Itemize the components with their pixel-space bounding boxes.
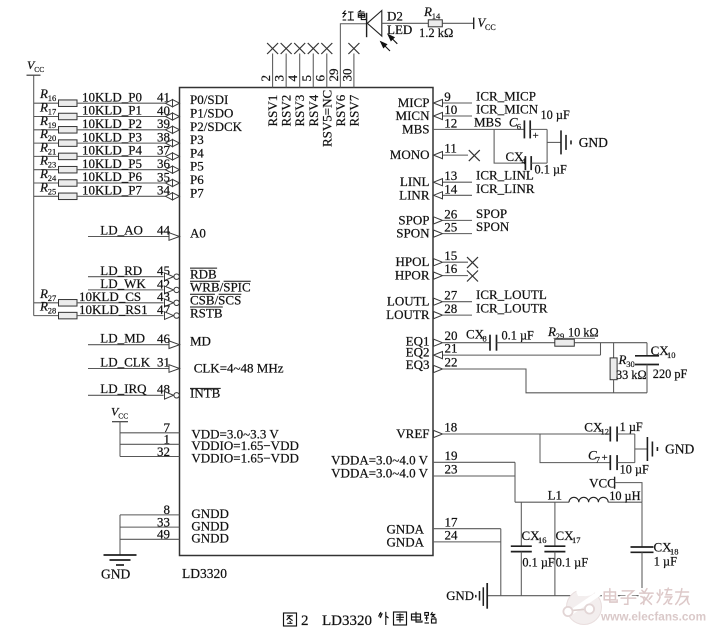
- svg-text:14: 14: [432, 11, 441, 21]
- pin CSB/SCS chip label (active low): [190, 293, 241, 308]
- node LD_AO pin 44: [88, 222, 180, 240]
- no-connect X pin 4: [294, 43, 305, 54]
- node ICR_LINR pin 14: [434, 181, 535, 199]
- svg-text:CC: CC: [34, 65, 44, 74]
- svg-text:10 µH: 10 µH: [609, 489, 640, 503]
- svg-text:LD_IRQ: LD_IRQ: [100, 381, 147, 396]
- resistor R28 on 10KLD_RS1: [34, 299, 180, 320]
- svg-text:LD3320: LD3320: [322, 613, 372, 629]
- svg-text:L1: L1: [548, 488, 562, 503]
- svg-text:19: 19: [48, 120, 57, 130]
- wire GNDD pin 49: [120, 527, 180, 542]
- svg-text:23: 23: [445, 462, 458, 477]
- LED D2: [367, 9, 413, 38]
- no-connect X pin 2: [267, 43, 278, 54]
- wire RSV pin 6: [326, 54, 328, 88]
- wire GNDA rail down: [500, 529, 502, 596]
- resistor R25 pull-up of P7: [34, 179, 180, 200]
- svg-text:12: 12: [444, 115, 457, 130]
- svg-text:SPON: SPON: [396, 226, 430, 241]
- svg-text:GNDD: GNDD: [191, 531, 229, 546]
- svg-text:16: 16: [538, 535, 547, 545]
- pin INTB chip label (active low): [190, 386, 221, 401]
- svg-text:GND: GND: [665, 442, 694, 457]
- wire MBS pin 12: [433, 114, 524, 130]
- svg-text:R: R: [39, 299, 48, 314]
- label red (红色) for LED: [343, 10, 367, 20]
- svg-text:EQ3: EQ3: [406, 357, 430, 372]
- wire GNDD rail: [119, 515, 121, 555]
- capacitor CX16 0.1uF: [511, 502, 555, 596]
- node ICR_LINL pin 13: [434, 168, 534, 186]
- svg-text:RSV7: RSV7: [346, 94, 361, 126]
- svg-text:14: 14: [444, 181, 458, 196]
- wire mic cap rail: [546, 129, 548, 163]
- svg-text:0.1 µF: 0.1 µF: [556, 556, 589, 570]
- svg-text:30: 30: [339, 69, 354, 82]
- power VCC terminal top-right: [474, 16, 496, 32]
- svg-text:R: R: [423, 4, 432, 19]
- svg-text:29: 29: [556, 331, 565, 341]
- LED light arrows: [381, 35, 398, 51]
- svg-text:LINR: LINR: [399, 187, 430, 202]
- svg-text:10KLD_P7: 10KLD_P7: [82, 183, 142, 198]
- node ICR_LOUTR pin 28: [434, 301, 548, 319]
- wire EQ1 pin 20: [434, 328, 491, 346]
- wire VCC rail left: [33, 75, 35, 315]
- svg-text:10 µF: 10 µF: [620, 463, 649, 477]
- no-connect X pin 30: [348, 43, 359, 54]
- pin RSTB chip label (active low): [190, 305, 223, 320]
- svg-text:R: R: [547, 324, 556, 339]
- svg-text:23: 23: [48, 160, 57, 170]
- svg-text:LD_AO: LD_AO: [100, 222, 143, 237]
- svg-text:A0: A0: [190, 226, 206, 241]
- svg-text:LED: LED: [387, 22, 412, 37]
- svg-text:220 pF: 220 pF: [653, 367, 688, 381]
- svg-text:17: 17: [572, 535, 581, 545]
- resistor R20 pull-up of P3: [34, 126, 180, 147]
- capacitor CX10 220pF: [635, 343, 687, 393]
- svg-text:10 µF: 10 µF: [541, 108, 570, 122]
- ground GND (digital): [101, 555, 137, 582]
- svg-text:28: 28: [444, 301, 457, 316]
- wire VREF branch down: [540, 434, 610, 463]
- wire GNDD pin 33: [120, 514, 180, 529]
- capacitor CX4 0.1uF: [506, 149, 568, 177]
- resistor R23 pull-up of P5: [34, 153, 180, 174]
- wire VDD rail: [119, 422, 121, 457]
- wire VREF pin 18: [434, 420, 611, 438]
- svg-text:8: 8: [483, 334, 487, 344]
- power VCC terminal top-left: [27, 58, 45, 75]
- svg-text:GND: GND: [101, 567, 130, 582]
- svg-text:6: 6: [517, 122, 521, 132]
- capacitor CX8 0.1uF: [466, 327, 534, 351]
- svg-text:ICR_LOUTR: ICR_LOUTR: [476, 301, 548, 316]
- svg-text:27: 27: [48, 293, 57, 303]
- svg-text:ICR_LINR: ICR_LINR: [476, 181, 535, 196]
- svg-text:SPON: SPON: [476, 219, 510, 234]
- wire VDDA pin 19: [433, 448, 515, 463]
- caption: figure 2 LD3320 peripheral circuit: [284, 613, 297, 626]
- node ICR_LOUTL pin 27: [434, 287, 547, 305]
- svg-text:12: 12: [601, 427, 610, 437]
- svg-text:25: 25: [444, 220, 457, 235]
- wire CX12 to rail: [617, 433, 635, 435]
- svg-text:25: 25: [48, 186, 57, 196]
- svg-text:17: 17: [48, 107, 57, 117]
- wire RSV pin 30: [353, 54, 355, 88]
- ground GND (vref): [647, 437, 694, 461]
- svg-text:49: 49: [157, 527, 170, 542]
- node HPOL pin 15 (NC): [434, 248, 479, 268]
- capacitor CX17 0.1uF: [544, 502, 588, 596]
- capacitor CX18 1uF: [631, 502, 679, 596]
- wire RSV pin 2: [272, 54, 274, 88]
- svg-text:R: R: [618, 352, 627, 367]
- svg-text:VREF: VREF: [396, 426, 429, 441]
- svg-text:22: 22: [445, 355, 458, 370]
- svg-text:7: 7: [596, 455, 600, 465]
- svg-text:24: 24: [48, 173, 57, 183]
- node LD_RD pin 45: [88, 263, 179, 281]
- capacitor CX12 1uF: [584, 420, 643, 442]
- no-connect X pin 3: [281, 43, 292, 54]
- wire EQ3 pin 22: [434, 355, 648, 393]
- resistor R21 pull-up of P4: [34, 139, 180, 160]
- svg-text:1 µF: 1 µF: [620, 420, 643, 434]
- pin RDB chip label (active low): [190, 267, 217, 282]
- wire VDDA rail down: [514, 462, 516, 502]
- svg-text:MONO: MONO: [390, 147, 430, 162]
- inductor L1 10uH: [515, 488, 642, 504]
- watermark logo elecfans: [557, 578, 602, 625]
- svg-text:33 kΩ: 33 kΩ: [616, 368, 647, 382]
- node LD_MD pin 46: [88, 331, 180, 349]
- svg-text:MD: MD: [190, 334, 211, 349]
- wire LED to R14: [382, 22, 429, 24]
- svg-text:GND: GND: [579, 135, 608, 150]
- svg-text:LD3320: LD3320: [182, 566, 227, 581]
- resistor R30 33k: [610, 343, 647, 393]
- wire VDD pin 7: [120, 420, 180, 435]
- node LD_WK pin 42: [88, 276, 179, 294]
- svg-text:www.elecfans.com: www.elecfans.com: [600, 610, 706, 624]
- svg-text:+: +: [602, 452, 608, 464]
- svg-text:18: 18: [444, 420, 457, 435]
- svg-text:0.1 µF: 0.1 µF: [535, 163, 568, 177]
- power VCC terminal (analog): [589, 475, 616, 490]
- svg-text:21: 21: [445, 341, 458, 356]
- svg-text:44: 44: [157, 222, 171, 237]
- node HPOR pin 16 (NC): [434, 261, 479, 281]
- svg-text:LOUTR: LOUTR: [386, 307, 430, 322]
- svg-text:VDDIO=1.65−VDD: VDDIO=1.65−VDD: [191, 450, 298, 465]
- svg-text:10KLD_RS1: 10KLD_RS1: [79, 302, 148, 317]
- wire RSV pin 5: [312, 54, 314, 88]
- svg-text:24: 24: [445, 528, 459, 543]
- svg-text:CC: CC: [485, 23, 496, 32]
- node SPOP pin 26: [434, 206, 508, 224]
- svg-text:0.1 µF: 0.1 µF: [522, 556, 555, 570]
- node SPON pin 25: [434, 219, 510, 237]
- svg-text:31: 31: [157, 355, 170, 370]
- node LD_IRQ pin 48: [88, 381, 179, 399]
- svg-text:CC: CC: [118, 412, 128, 421]
- svg-text:10 kΩ: 10 kΩ: [568, 326, 599, 340]
- ground GND (mic): [561, 130, 608, 154]
- no-connect X pin 6: [321, 43, 332, 54]
- wire RSV6 pin 29 to LED: [340, 24, 366, 88]
- wire RSV pin 4: [299, 54, 301, 88]
- wire CX8 to R29: [497, 342, 555, 344]
- resistor R29 10k: [547, 324, 599, 346]
- watermark text dianzifashaoyou: [604, 588, 689, 605]
- IC U1 LD3320 body: [180, 88, 434, 556]
- wire CX4 to rail: [531, 162, 547, 164]
- svg-text:21: 21: [48, 146, 57, 156]
- svg-text:GND: GND: [446, 589, 474, 603]
- wire EQ2 pin 21: [434, 341, 601, 359]
- svg-text:20: 20: [48, 133, 57, 143]
- svg-text:10: 10: [667, 350, 676, 360]
- svg-text:16: 16: [48, 93, 57, 103]
- svg-text:0.1 µF: 0.1 µF: [502, 329, 535, 343]
- capacitor C6 10uF: [509, 108, 570, 142]
- wire VDD pin 32: [120, 444, 180, 459]
- svg-text:32: 32: [157, 444, 170, 459]
- wire GNDD pin 8: [120, 502, 180, 517]
- ground GND (analog) terminal: [446, 583, 487, 609]
- wire VCC to L1: [615, 483, 642, 503]
- pin WRB/SPIC chip label (active low): [190, 280, 251, 295]
- svg-text:1 µF: 1 µF: [654, 555, 677, 569]
- svg-text:MBS: MBS: [474, 114, 501, 129]
- svg-text:RSTB: RSTB: [190, 305, 223, 320]
- node LD_CLK pin 31: [88, 354, 180, 372]
- wire C7 to rail: [617, 462, 635, 464]
- wire C6 to GND rail: [530, 128, 547, 130]
- svg-text:46: 46: [157, 331, 171, 346]
- resistor R24 pull-up of P6: [34, 166, 180, 187]
- resistor R14 1.2k: [419, 4, 453, 40]
- svg-text:1.2 kΩ: 1.2 kΩ: [419, 26, 453, 40]
- node ICR_MICN pin 10: [434, 102, 539, 120]
- wire analog ground rail: [487, 595, 642, 597]
- svg-text:HPOR: HPOR: [395, 268, 430, 283]
- node ICR_MICP pin 9: [434, 89, 536, 107]
- wire vref rail: [634, 434, 636, 463]
- svg-text:R: R: [39, 179, 48, 194]
- wire VDDA pin 23: [433, 462, 515, 477]
- wire R29 to CX10 node: [574, 342, 647, 344]
- wire GNDA pin 24: [433, 528, 501, 543]
- svg-text:VDDA=3.0~4.0 V: VDDA=3.0~4.0 V: [331, 466, 428, 481]
- capacitor C7 10uF: [588, 448, 649, 477]
- svg-text:P7: P7: [190, 185, 204, 200]
- svg-text:CLK=4~48 MHz: CLK=4~48 MHz: [194, 360, 284, 375]
- wire rail to GND: [547, 141, 561, 143]
- wire rail to GND (vref): [635, 448, 648, 450]
- svg-text:MBS: MBS: [402, 122, 429, 137]
- resistor R27 on 10KLD_CS: [34, 286, 180, 307]
- svg-text:11: 11: [444, 140, 457, 155]
- wire VDD pin 1: [120, 432, 180, 447]
- svg-text:GNDA: GNDA: [386, 535, 424, 550]
- svg-text:LD_MD: LD_MD: [100, 331, 145, 346]
- resistor R19 pull-up of P2: [34, 113, 180, 134]
- svg-text:LD_CLK: LD_CLK: [100, 354, 150, 369]
- node MONO pin 11: [434, 140, 480, 161]
- wire GNDA pin 17: [433, 514, 501, 529]
- resistor R17 pull-up of P1: [34, 100, 180, 121]
- wire MBS branch down: [494, 129, 525, 163]
- svg-text:16: 16: [444, 261, 458, 276]
- wire R14 to VCC: [442, 22, 473, 24]
- no-connect X pin 5: [308, 43, 319, 54]
- wire RSV pin 3: [285, 54, 287, 88]
- svg-text:+: +: [533, 130, 539, 142]
- svg-text:28: 28: [48, 306, 57, 316]
- resistor R16 pull-up of P0: [34, 86, 180, 107]
- power VCC terminal lower-left: [111, 405, 128, 422]
- svg-text:2: 2: [301, 613, 309, 629]
